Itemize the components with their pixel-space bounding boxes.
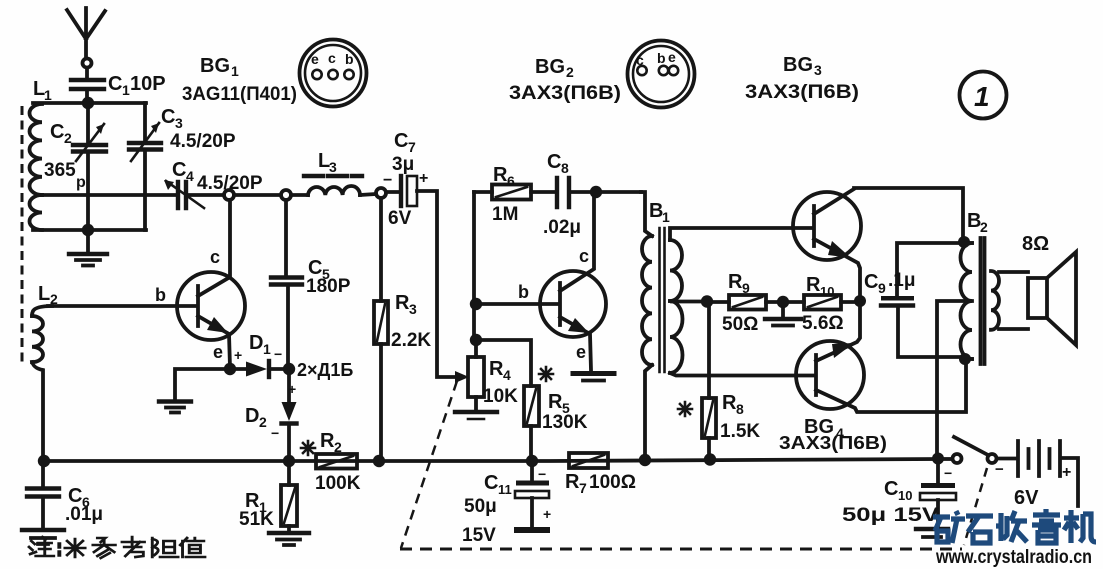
svg-text:10P: 10P <box>130 73 166 95</box>
svg-text:1.5K: 1.5K <box>720 421 760 442</box>
svg-text:p: p <box>76 174 86 191</box>
svg-text:R: R <box>548 391 563 413</box>
svg-text:2: 2 <box>259 414 267 430</box>
svg-text:C: C <box>50 121 64 143</box>
svg-text:www.crystalradio.cn: www.crystalradio.cn <box>935 547 1092 568</box>
svg-text:C: C <box>108 73 122 95</box>
svg-text:4: 4 <box>186 168 194 184</box>
svg-text:−: − <box>944 465 952 481</box>
svg-text:+: + <box>288 381 296 397</box>
svg-text:180P: 180P <box>306 276 351 297</box>
svg-text:3: 3 <box>409 301 417 317</box>
svg-text:c: c <box>210 247 220 267</box>
svg-text:1: 1 <box>974 81 990 112</box>
svg-text:b: b <box>518 282 529 302</box>
svg-text:C: C <box>394 130 408 152</box>
svg-text:e: e <box>576 342 586 362</box>
svg-text:100Ω: 100Ω <box>589 472 636 493</box>
svg-text:D: D <box>245 405 259 427</box>
svg-text:+: + <box>1062 464 1071 481</box>
svg-text:3: 3 <box>814 62 822 78</box>
svg-text:R: R <box>395 292 410 314</box>
svg-text:8: 8 <box>736 401 744 417</box>
svg-text:R: R <box>806 274 821 296</box>
svg-text:15V: 15V <box>462 525 496 546</box>
svg-text:e: e <box>311 51 319 67</box>
svg-text:C: C <box>172 159 186 181</box>
svg-text:BG: BG <box>535 56 565 78</box>
svg-text:R: R <box>565 471 580 493</box>
svg-text:4.5/20P: 4.5/20P <box>170 131 236 152</box>
svg-text:b: b <box>155 285 166 305</box>
svg-text:3AX3(П6В): 3AX3(П6В) <box>745 82 859 103</box>
svg-text:C: C <box>547 151 561 173</box>
svg-text:BG: BG <box>200 55 230 77</box>
svg-text:D: D <box>249 332 263 354</box>
svg-text:e: e <box>668 49 676 65</box>
svg-text:9: 9 <box>742 280 750 296</box>
svg-text:8Ω: 8Ω <box>1022 233 1049 255</box>
svg-text:1M: 1M <box>492 204 518 225</box>
svg-text:2: 2 <box>64 130 72 146</box>
svg-text:−: − <box>274 346 282 362</box>
svg-text:+: + <box>419 170 428 187</box>
svg-text:C: C <box>864 271 878 293</box>
svg-text:6V: 6V <box>1014 487 1039 509</box>
svg-text:BG: BG <box>783 54 813 76</box>
svg-text:10: 10 <box>820 284 834 299</box>
svg-text:C: C <box>484 472 498 494</box>
svg-text:C: C <box>161 106 175 128</box>
svg-text:R: R <box>728 271 743 293</box>
svg-text:6: 6 <box>507 173 515 189</box>
svg-text:−: − <box>995 461 1004 478</box>
svg-text:.02μ: .02μ <box>543 217 581 238</box>
svg-text:4.5/20P: 4.5/20P <box>197 173 263 194</box>
svg-text:2: 2 <box>50 291 58 307</box>
svg-text:.1μ: .1μ <box>888 270 915 291</box>
svg-text:130K: 130K <box>542 412 588 433</box>
svg-text:−: − <box>271 425 279 441</box>
svg-text:365: 365 <box>44 160 76 181</box>
svg-text:b: b <box>657 50 666 66</box>
svg-text:C: C <box>884 478 898 500</box>
svg-text:c: c <box>579 246 589 266</box>
svg-text:51K: 51K <box>239 509 274 530</box>
svg-text:1: 1 <box>263 341 271 357</box>
svg-text:+: + <box>543 506 551 522</box>
svg-text:50Ω: 50Ω <box>722 314 758 335</box>
svg-text:2: 2 <box>566 64 574 80</box>
svg-text:b: b <box>345 51 354 67</box>
svg-text:1: 1 <box>231 63 239 79</box>
svg-text:R: R <box>493 164 508 186</box>
svg-text:11: 11 <box>498 482 512 497</box>
svg-text:1: 1 <box>122 82 130 98</box>
svg-text:5.6Ω: 5.6Ω <box>802 313 844 334</box>
svg-text:−: − <box>538 466 546 482</box>
svg-text:c: c <box>636 52 644 68</box>
svg-text:50μ 15V: 50μ 15V <box>842 505 939 526</box>
svg-text:L: L <box>38 283 50 305</box>
svg-text:6V: 6V <box>388 208 412 229</box>
svg-text:e: e <box>213 342 223 362</box>
svg-text:R: R <box>489 358 504 380</box>
svg-text:2.2K: 2.2K <box>391 330 431 351</box>
svg-text:10K: 10K <box>483 386 518 407</box>
svg-text:3: 3 <box>329 159 337 175</box>
svg-text:3AX3(П6В): 3AX3(П6В) <box>779 433 887 453</box>
svg-text:1: 1 <box>44 87 52 103</box>
svg-text:c: c <box>328 50 336 66</box>
svg-text:8: 8 <box>561 160 569 176</box>
svg-text:2×Д1Б: 2×Д1Б <box>297 360 353 380</box>
svg-text:R: R <box>320 430 335 452</box>
svg-text:9: 9 <box>878 280 886 296</box>
svg-text:2: 2 <box>334 439 342 455</box>
svg-text:4: 4 <box>503 367 511 383</box>
svg-text:1: 1 <box>662 209 670 225</box>
svg-text:3μ: 3μ <box>392 154 414 175</box>
svg-text:3: 3 <box>175 115 183 131</box>
svg-text:R: R <box>722 392 737 414</box>
svg-text:7: 7 <box>408 139 416 155</box>
svg-text:50μ: 50μ <box>464 496 497 517</box>
svg-text:+: + <box>234 347 242 363</box>
svg-text:10: 10 <box>898 488 912 503</box>
svg-text:2: 2 <box>980 219 988 235</box>
svg-text:7: 7 <box>579 480 587 496</box>
svg-text:.01μ: .01μ <box>65 504 103 525</box>
svg-text:3AG11(П401): 3AG11(П401) <box>182 84 297 105</box>
svg-text:3AX3(П6В): 3AX3(П6В) <box>509 83 621 104</box>
svg-text:−: − <box>383 172 392 189</box>
svg-text:100K: 100K <box>315 473 361 494</box>
